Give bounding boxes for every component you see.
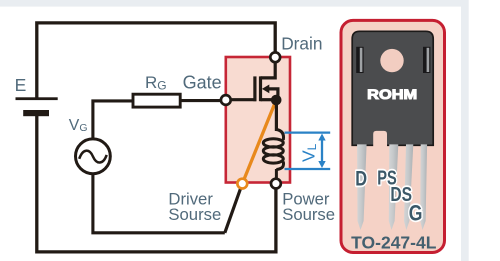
- highlight box (MOSFET region): [226, 57, 290, 183]
- node Power Sourse: [271, 179, 281, 189]
- svg-text:Sourse: Sourse: [282, 205, 335, 224]
- wire diagonal to driver source node: [225, 184, 243, 233]
- pin D: [357, 144, 367, 230]
- TO-247-4L package body: [352, 31, 433, 145]
- MOSFET body lead: [265, 89, 278, 99]
- svg-text:Gate: Gate: [183, 72, 222, 92]
- bottom notch: [373, 131, 387, 147]
- svg-text:Sourse: Sourse: [168, 205, 221, 224]
- source VG (sine generator): [76, 139, 111, 174]
- battery E: [16, 97, 58, 100]
- wire kelvin gate-return (orange): [242, 100, 276, 184]
- wire resistor to gate node: [180, 99, 226, 102]
- wire bottom loop (battery E to Power Sourse): [37, 114, 276, 252]
- svg-text:Drain: Drain: [281, 33, 322, 53]
- svg-text:TO-247-4L: TO-247-4L: [351, 233, 437, 253]
- resistor RG: [133, 94, 180, 107]
- blue VL arrow: [321, 139, 323, 164]
- blue VL bracket bottom line: [285, 168, 331, 170]
- node Gate: [221, 95, 231, 105]
- inductor L (parasitic source inductance): [263, 130, 283, 184]
- wire VG to resistor: [93, 101, 133, 139]
- MOSFET source lead: [261, 98, 277, 101]
- MOSFET channel bar: [259, 76, 262, 101]
- right gray stripe: [461, 0, 469, 261]
- node Drain: [270, 52, 280, 62]
- MOSFET Q1 gate lead: [226, 98, 257, 101]
- wire top loop (battery E to Drain): [37, 23, 275, 99]
- left slot: [356, 47, 363, 73]
- svg-text:D: D: [355, 167, 367, 190]
- svg-text:ROHM: ROHM: [367, 87, 417, 102]
- pin G: [420, 144, 427, 230]
- wire VG down and right: [93, 174, 225, 233]
- pin PS: [389, 144, 399, 230]
- blue VL bracket top line: [285, 131, 331, 133]
- mounting hole: [380, 49, 403, 72]
- MOSFET gate bar: [253, 76, 256, 101]
- svg-text:E: E: [15, 75, 27, 95]
- node Driver Sourse (orange): [237, 179, 247, 189]
- right slot: [423, 47, 430, 73]
- package panel (red rounded box): [341, 20, 445, 252]
- MOSFET body arrow head: [262, 85, 269, 94]
- node source junction (dot): [271, 95, 282, 106]
- svg-text:G: G: [409, 202, 423, 226]
- MOSFET drain lead: [261, 57, 276, 78]
- top gray band: [0, 0, 468, 7]
- pin DS: [404, 144, 413, 230]
- wire dot to inductor: [275, 100, 278, 131]
